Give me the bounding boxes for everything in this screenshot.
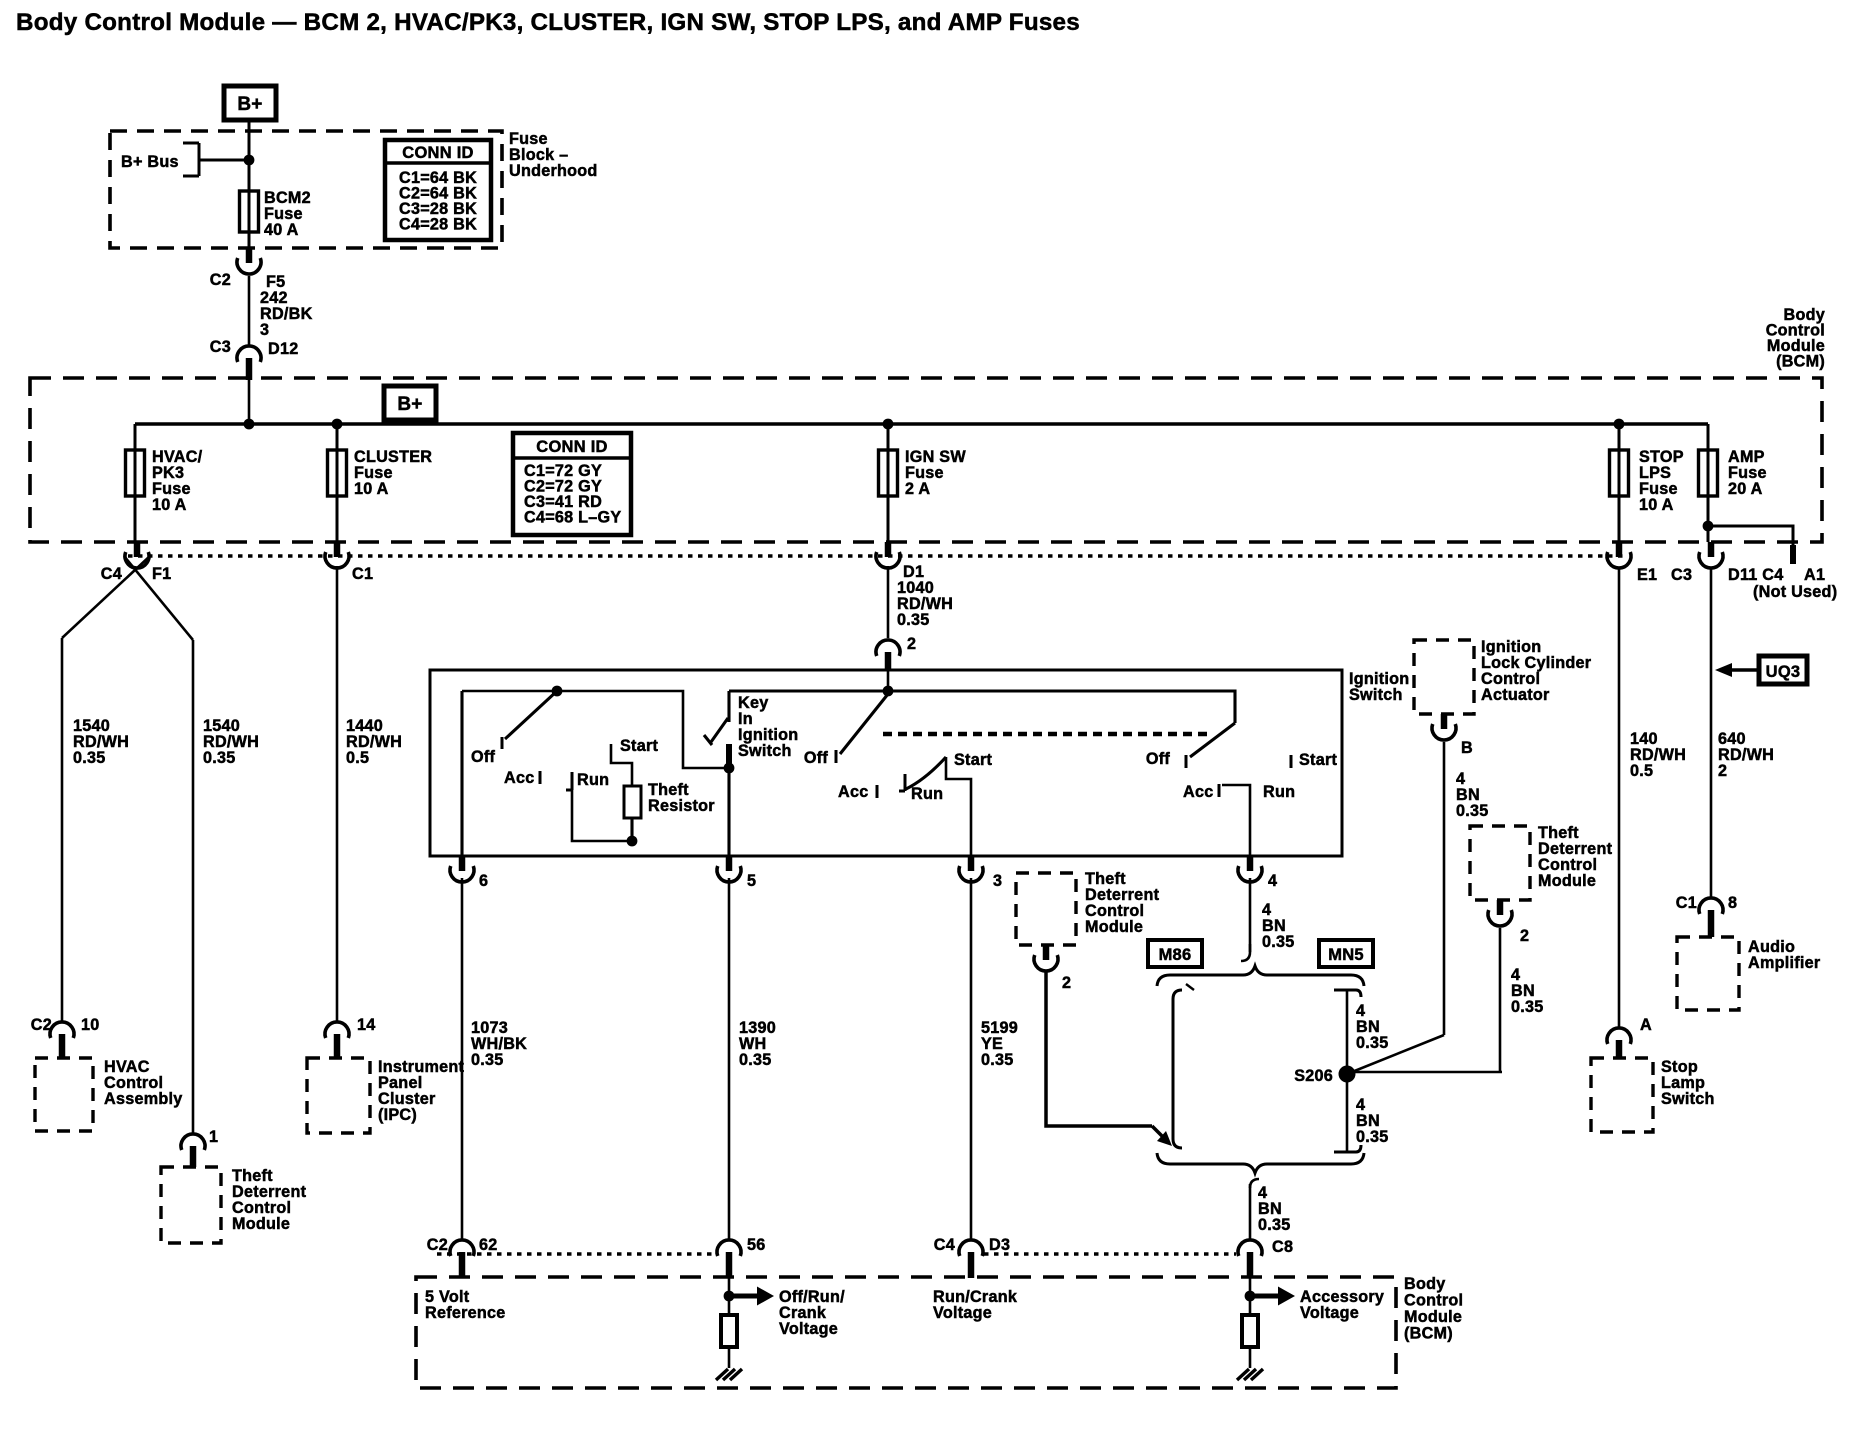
svg-text:D11 C4: D11 C4 — [1728, 566, 1784, 584]
svg-text:M86: M86 — [1159, 946, 1192, 964]
svg-text:10 A: 10 A — [1639, 496, 1674, 514]
svg-text:Resistor: Resistor — [648, 797, 715, 815]
svg-text:B: B — [1461, 739, 1473, 757]
svg-text:S206: S206 — [1294, 1067, 1333, 1085]
svg-text:C4: C4 — [101, 565, 122, 583]
svg-text:Assembly: Assembly — [104, 1090, 182, 1108]
svg-text:2: 2 — [1718, 762, 1727, 780]
svg-text:0.35: 0.35 — [1511, 998, 1544, 1016]
svg-text:0.35: 0.35 — [1262, 933, 1295, 951]
svg-text:(BCM): (BCM) — [1404, 1325, 1453, 1343]
svg-text:Off: Off — [471, 748, 495, 766]
svg-text:D12: D12 — [268, 340, 298, 358]
svg-text:C1: C1 — [352, 565, 373, 583]
svg-text:Reference: Reference — [425, 1304, 506, 1322]
svg-text:20 A: 20 A — [1728, 480, 1763, 498]
svg-text:0.35: 0.35 — [1258, 1216, 1291, 1234]
svg-text:(Not Used): (Not Used) — [1753, 583, 1837, 601]
svg-text:10: 10 — [81, 1016, 100, 1034]
svg-text:10 A: 10 A — [354, 480, 389, 498]
svg-text:3: 3 — [993, 872, 1002, 890]
svg-text:C2: C2 — [31, 1016, 52, 1034]
svg-text:F1: F1 — [152, 565, 171, 583]
svg-text:Voltage: Voltage — [1300, 1304, 1359, 1322]
svg-text:0.35: 0.35 — [897, 611, 930, 629]
svg-text:56: 56 — [747, 1236, 766, 1254]
svg-text:Acc: Acc — [1183, 783, 1213, 801]
svg-text:0.5: 0.5 — [1630, 762, 1653, 780]
svg-text:C4=68 L–GY: C4=68 L–GY — [524, 509, 621, 527]
svg-text:1: 1 — [209, 1128, 218, 1146]
svg-text:A: A — [1640, 1016, 1652, 1034]
svg-text:UQ3: UQ3 — [1766, 663, 1801, 681]
svg-text:3: 3 — [260, 321, 269, 339]
svg-text:2: 2 — [1062, 974, 1071, 992]
svg-text:Voltage: Voltage — [779, 1320, 838, 1338]
svg-text:40 A: 40 A — [264, 221, 299, 239]
svg-text:14: 14 — [357, 1016, 376, 1034]
svg-text:2: 2 — [907, 635, 916, 653]
svg-text:0.35: 0.35 — [203, 749, 236, 767]
svg-text:D3: D3 — [989, 1236, 1010, 1254]
svg-text:0.35: 0.35 — [471, 1051, 504, 1069]
svg-text:8: 8 — [1728, 894, 1737, 912]
svg-text:10 A: 10 A — [152, 496, 187, 514]
svg-text:Module: Module — [1085, 918, 1143, 936]
svg-text:Voltage: Voltage — [933, 1304, 992, 1322]
svg-text:Run: Run — [577, 771, 609, 789]
svg-text:5: 5 — [747, 872, 756, 890]
svg-text:(BCM): (BCM) — [1776, 353, 1825, 371]
svg-text:62: 62 — [479, 1236, 498, 1254]
svg-text:(IPC): (IPC) — [378, 1106, 417, 1124]
svg-text:Off: Off — [1146, 750, 1170, 768]
svg-text:Underhood: Underhood — [509, 162, 598, 180]
svg-text:A1: A1 — [1804, 566, 1825, 584]
svg-text:B+ Bus: B+ Bus — [121, 153, 179, 171]
svg-text:C3: C3 — [1671, 566, 1692, 584]
svg-text:0.35: 0.35 — [739, 1051, 772, 1069]
svg-text:C8: C8 — [1272, 1238, 1293, 1256]
svg-text:6: 6 — [479, 872, 488, 890]
svg-text:Start: Start — [620, 737, 658, 755]
svg-text:C1: C1 — [1676, 894, 1697, 912]
svg-text:0.35: 0.35 — [981, 1051, 1014, 1069]
svg-text:Amplifier: Amplifier — [1748, 954, 1821, 972]
svg-text:Actuator: Actuator — [1481, 686, 1550, 704]
svg-text:Module: Module — [1404, 1308, 1462, 1326]
svg-text:Module: Module — [232, 1215, 290, 1233]
svg-text:0.35: 0.35 — [73, 749, 106, 767]
svg-text:E1: E1 — [1637, 566, 1657, 584]
svg-text:Start: Start — [1299, 751, 1337, 769]
svg-text:2: 2 — [1520, 927, 1529, 945]
svg-text:Body Control Module — BCM 2, H: Body Control Module — BCM 2, HVAC/PK3, C… — [16, 9, 1080, 36]
svg-text:MN5: MN5 — [1328, 946, 1364, 964]
svg-text:Body: Body — [1404, 1275, 1445, 1293]
svg-text:Run: Run — [1263, 783, 1295, 801]
svg-text:C4: C4 — [934, 1236, 955, 1254]
svg-text:B+: B+ — [237, 94, 262, 115]
svg-text:Run: Run — [911, 785, 943, 803]
svg-text:CONN ID: CONN ID — [536, 438, 607, 456]
svg-text:0.35: 0.35 — [1356, 1128, 1389, 1146]
svg-text:0.5: 0.5 — [346, 749, 369, 767]
svg-text:Off: Off — [804, 749, 828, 767]
svg-text:B+: B+ — [397, 394, 422, 415]
svg-text:Module: Module — [1538, 872, 1596, 890]
svg-text:0.35: 0.35 — [1356, 1034, 1389, 1052]
svg-text:0.35: 0.35 — [1456, 802, 1489, 820]
svg-text:CONN ID: CONN ID — [402, 144, 473, 162]
svg-text:Acc: Acc — [504, 769, 534, 787]
svg-text:C4=28 BK: C4=28 BK — [399, 216, 477, 234]
svg-text:Switch: Switch — [1661, 1090, 1715, 1108]
svg-text:2 A: 2 A — [905, 480, 930, 498]
svg-text:Start: Start — [954, 751, 992, 769]
svg-text:Switch: Switch — [738, 742, 792, 760]
svg-text:C2: C2 — [210, 271, 231, 289]
svg-text:4: 4 — [1268, 872, 1277, 890]
svg-text:Switch: Switch — [1349, 686, 1403, 704]
svg-text:C3: C3 — [210, 338, 231, 356]
svg-text:Control: Control — [1404, 1292, 1463, 1310]
svg-text:C2: C2 — [427, 1236, 448, 1254]
svg-text:Acc: Acc — [838, 783, 868, 801]
